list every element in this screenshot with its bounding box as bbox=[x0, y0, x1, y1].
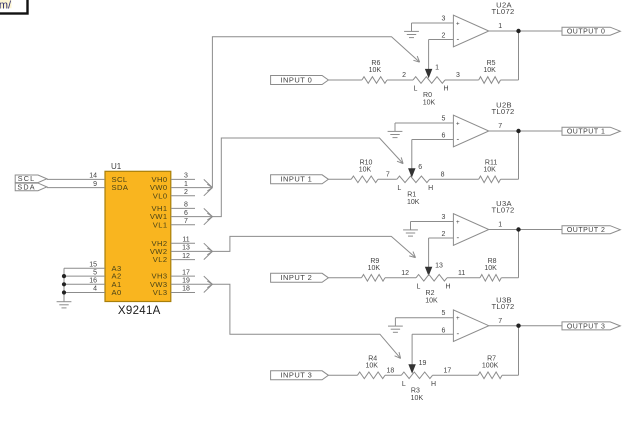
wire feedback up bbox=[502, 374, 518, 376]
potentiometer R3 wiper arrow pin 19 bbox=[409, 365, 415, 373]
bus tap arrow group3 bbox=[204, 276, 213, 284]
svg-text:11: 11 bbox=[182, 236, 189, 243]
resistor R10 10K bbox=[351, 176, 378, 183]
svg-text:R4: R4 bbox=[368, 355, 377, 362]
svg-text:6: 6 bbox=[418, 164, 422, 171]
wire R3 to R7 bbox=[433, 374, 479, 376]
svg-text:2: 2 bbox=[442, 33, 446, 40]
svg-text:TL072: TL072 bbox=[491, 7, 514, 16]
wire R10 to R1 bbox=[378, 178, 397, 180]
wire output pin 7 bbox=[489, 130, 562, 132]
wire R6 to R0 bbox=[387, 79, 413, 81]
junction bbox=[516, 227, 520, 231]
svg-text:R2: R2 bbox=[426, 290, 435, 297]
ground (U3B +in) bbox=[394, 318, 396, 326]
ground (U3A +in) bbox=[410, 222, 412, 230]
wire +in pin 3 bbox=[411, 221, 454, 223]
svg-text:1: 1 bbox=[435, 65, 439, 72]
svg-text:VL1: VL1 bbox=[153, 220, 168, 229]
wire feedback up bbox=[501, 79, 519, 81]
IC pin 3 VH0 stub bbox=[171, 178, 195, 180]
svg-text:H: H bbox=[445, 283, 450, 290]
svg-text:A0: A0 bbox=[112, 288, 122, 297]
wire INPUT 2 to R9 bbox=[328, 277, 361, 279]
svg-text:H: H bbox=[431, 381, 436, 388]
svg-text:OUTPUT 0: OUTPUT 0 bbox=[567, 29, 606, 36]
svg-text:18: 18 bbox=[182, 286, 190, 293]
svg-text:3: 3 bbox=[442, 15, 446, 22]
op-amp U3A TL072 bbox=[453, 214, 488, 246]
IC pin 19 VW3 stub bbox=[171, 283, 195, 285]
svg-text:6: 6 bbox=[442, 133, 446, 140]
svg-text:R7: R7 bbox=[487, 355, 496, 362]
svg-text:TL072: TL072 bbox=[491, 302, 514, 311]
net flag OUTPUT 1 bbox=[562, 127, 620, 135]
svg-text:1: 1 bbox=[184, 181, 188, 188]
svg-text:H: H bbox=[428, 185, 433, 192]
svg-text:2: 2 bbox=[184, 189, 188, 196]
junction bbox=[62, 282, 66, 286]
op-amp U3B TL072 bbox=[453, 310, 488, 342]
bus tap arrow group1 bbox=[204, 208, 213, 216]
svg-text:7: 7 bbox=[498, 318, 502, 325]
wire R0 to R5 bbox=[445, 79, 479, 81]
IC pin 6 VW1 stub bbox=[171, 216, 195, 218]
svg-text:INPUT 2: INPUT 2 bbox=[281, 273, 313, 282]
junction bbox=[62, 274, 66, 278]
wire output pin 7 bbox=[489, 325, 562, 327]
IC pin 7 VL1 stub bbox=[171, 224, 195, 226]
resistor R11 10K bbox=[479, 176, 501, 183]
IC pin 17 VH3 stub bbox=[171, 275, 195, 277]
wire R2 to R8 bbox=[447, 277, 480, 279]
potentiometer R0 10K body bbox=[413, 77, 445, 84]
svg-text:VL0: VL0 bbox=[153, 191, 168, 200]
wire output pin 1 bbox=[489, 30, 562, 32]
svg-text:L: L bbox=[417, 283, 421, 290]
junction bbox=[62, 290, 66, 294]
svg-text:5: 5 bbox=[93, 269, 97, 276]
svg-text:5: 5 bbox=[442, 115, 446, 122]
svg-text:TL072: TL072 bbox=[491, 107, 514, 116]
svg-text:10K: 10K bbox=[425, 297, 438, 304]
junction bbox=[516, 29, 520, 33]
svg-text:2: 2 bbox=[402, 72, 406, 79]
svg-text:10K: 10K bbox=[368, 265, 381, 272]
svg-text:11: 11 bbox=[458, 270, 465, 277]
wire INPUT 0 to R6 bbox=[328, 79, 362, 81]
ground (U2B +in) bbox=[394, 123, 396, 131]
wire R9 to R2 bbox=[385, 277, 416, 279]
potentiometer R1 wiper arrow pin 6 bbox=[409, 169, 415, 177]
svg-text:R3: R3 bbox=[411, 387, 420, 394]
IC pin 14 SCL stub bbox=[47, 178, 105, 180]
svg-text:+: + bbox=[456, 219, 460, 226]
svg-text:OUTPUT 1: OUTPUT 1 bbox=[567, 129, 606, 136]
svg-text:+: + bbox=[456, 120, 460, 127]
potentiometer R2 10K body bbox=[416, 275, 447, 282]
resistor R8 10K bbox=[480, 275, 501, 282]
wire bus group2 bbox=[212, 236, 415, 257]
svg-text:19: 19 bbox=[182, 278, 190, 285]
svg-text:-: - bbox=[456, 233, 459, 242]
svg-text:18: 18 bbox=[387, 368, 395, 375]
svg-text:R5: R5 bbox=[487, 60, 496, 67]
svg-text:1: 1 bbox=[498, 23, 502, 30]
svg-text:INPUT 3: INPUT 3 bbox=[281, 371, 313, 380]
svg-text:3: 3 bbox=[442, 214, 446, 221]
wire bus group3 bbox=[212, 284, 400, 358]
svg-text:12: 12 bbox=[182, 253, 190, 260]
svg-text:2: 2 bbox=[442, 231, 446, 238]
svg-text:+: + bbox=[456, 315, 460, 322]
net flag INPUT 0 bbox=[271, 76, 329, 85]
svg-text:L: L bbox=[414, 86, 418, 93]
potentiometer R0 wiper arrow pin 1 bbox=[426, 69, 432, 77]
IC pin 15 A3 stub bbox=[64, 267, 105, 269]
svg-text:10K: 10K bbox=[423, 100, 436, 107]
resistor R7 100K bbox=[478, 372, 502, 379]
wire output pin 1 bbox=[489, 229, 562, 231]
wire -in pin 6 bbox=[412, 333, 453, 335]
potentiometer R1 10K body bbox=[397, 176, 430, 183]
net flag SDA bbox=[15, 183, 47, 191]
wire bus group0 bbox=[212, 37, 419, 188]
svg-text:VL2: VL2 bbox=[153, 255, 168, 264]
svg-text:8: 8 bbox=[441, 172, 445, 179]
IC pin 2 VL0 stub bbox=[171, 195, 195, 197]
ground (U2A +in) bbox=[411, 23, 413, 31]
svg-text:10K: 10K bbox=[411, 395, 424, 402]
page fragment box (top-left) bbox=[0, 0, 28, 14]
svg-text:-: - bbox=[456, 35, 459, 44]
svg-text:19: 19 bbox=[419, 360, 427, 367]
svg-text:17: 17 bbox=[444, 368, 452, 375]
svg-text:OUTPUT 3: OUTPUT 3 bbox=[567, 323, 606, 330]
svg-text:10K: 10K bbox=[359, 167, 372, 174]
svg-text:+: + bbox=[456, 20, 460, 27]
resistor R5 10K bbox=[479, 77, 501, 84]
svg-text:-: - bbox=[456, 329, 459, 338]
svg-text:6: 6 bbox=[184, 210, 188, 217]
svg-text:15: 15 bbox=[89, 262, 97, 269]
wire INPUT 1 to R10 bbox=[328, 178, 351, 180]
svg-text:10K: 10K bbox=[369, 67, 382, 74]
svg-text:1: 1 bbox=[498, 222, 502, 229]
svg-text:7: 7 bbox=[184, 218, 188, 225]
op-amp U2A TL072 bbox=[453, 15, 488, 47]
IC U1 X9241A body bbox=[105, 171, 171, 301]
svg-text:10K: 10K bbox=[407, 199, 420, 206]
wire +in pin 5 bbox=[395, 122, 453, 124]
IC pin 4 A0 stub bbox=[64, 292, 105, 294]
resistor R4 10K bbox=[357, 372, 385, 379]
svg-text:10K: 10K bbox=[483, 167, 496, 174]
svg-text:13: 13 bbox=[182, 245, 190, 252]
svg-text:VL3: VL3 bbox=[153, 288, 168, 297]
svg-text:SDA: SDA bbox=[17, 182, 35, 191]
svg-text:10K: 10K bbox=[483, 67, 496, 74]
svg-text:R11: R11 bbox=[485, 159, 497, 166]
net flag OUTPUT 3 bbox=[562, 322, 620, 330]
IC pin 11 VH2 stub bbox=[171, 242, 195, 244]
net flag INPUT 1 bbox=[271, 175, 329, 184]
svg-text:R10: R10 bbox=[360, 159, 373, 166]
bus tap arrow group2 bbox=[204, 243, 213, 251]
svg-text:U1: U1 bbox=[111, 162, 122, 171]
svg-text:8: 8 bbox=[184, 202, 188, 209]
svg-text:5: 5 bbox=[442, 310, 446, 317]
IC pin 1 VW0 stub bbox=[171, 187, 195, 189]
svg-text:L: L bbox=[397, 185, 401, 192]
svg-text:6: 6 bbox=[442, 327, 446, 334]
wire A-pins common bbox=[63, 268, 65, 301]
svg-text:7: 7 bbox=[498, 123, 502, 130]
IC pin 12 VL2 stub bbox=[171, 259, 195, 261]
net flag INPUT 3 bbox=[271, 371, 329, 380]
wire R1 to R11 bbox=[430, 178, 479, 180]
wire -in pin 6 bbox=[412, 139, 454, 141]
svg-text:7: 7 bbox=[386, 172, 390, 179]
svg-text:4: 4 bbox=[93, 286, 97, 293]
wire bus group1 bbox=[212, 138, 403, 217]
svg-text:R9: R9 bbox=[370, 258, 379, 265]
svg-text:10K: 10K bbox=[484, 265, 497, 272]
op-amp U2B TL072 bbox=[453, 115, 488, 147]
resistor R9 10K bbox=[362, 275, 386, 282]
svg-text:R1: R1 bbox=[407, 191, 416, 198]
wire -in pin 2 bbox=[429, 39, 454, 41]
wire +in pin 3 bbox=[412, 22, 454, 24]
svg-text:10K: 10K bbox=[365, 363, 378, 370]
IC pin 13 VW2 stub bbox=[171, 250, 195, 252]
wire -in pin 2 bbox=[429, 237, 454, 239]
svg-text:14: 14 bbox=[89, 173, 97, 180]
potentiometer R3 10K body bbox=[401, 372, 432, 379]
svg-text:H: H bbox=[443, 86, 448, 93]
svg-text:R8: R8 bbox=[488, 258, 497, 265]
net flag INPUT 2 bbox=[271, 273, 329, 282]
IC pin 8 VH1 stub bbox=[171, 207, 195, 209]
net flag SCL bbox=[15, 175, 47, 183]
svg-text:X9241A: X9241A bbox=[118, 305, 161, 317]
svg-text:17: 17 bbox=[182, 269, 190, 276]
svg-text:INPUT 0: INPUT 0 bbox=[281, 75, 313, 84]
wire +in pin 5 bbox=[395, 317, 453, 319]
svg-text:SDA: SDA bbox=[112, 183, 129, 192]
potentiometer R2 wiper arrow pin 13 bbox=[426, 267, 432, 275]
svg-text:INPUT 1: INPUT 1 bbox=[281, 175, 313, 184]
IC pin 16 A1 stub bbox=[64, 283, 105, 285]
ground (address pins) bbox=[57, 301, 72, 303]
svg-text:OUTPUT 2: OUTPUT 2 bbox=[567, 227, 606, 234]
bus tap arrow group0 bbox=[204, 179, 213, 187]
IC pin 5 A2 stub bbox=[64, 275, 105, 277]
svg-text:12: 12 bbox=[401, 270, 409, 277]
svg-text:13: 13 bbox=[435, 262, 443, 269]
IC pin 9 SDA stub bbox=[47, 187, 105, 189]
IC pin 18 VL3 stub bbox=[171, 292, 195, 294]
junction bbox=[516, 129, 520, 133]
svg-text:R0: R0 bbox=[423, 92, 432, 99]
svg-text:m/: m/ bbox=[0, 0, 12, 11]
net flag OUTPUT 0 bbox=[562, 27, 620, 35]
svg-text:-: - bbox=[456, 135, 459, 144]
resistor R6 10K bbox=[362, 77, 387, 84]
net flag OUTPUT 2 bbox=[562, 226, 620, 234]
svg-text:R6: R6 bbox=[371, 60, 380, 67]
svg-text:L: L bbox=[402, 381, 406, 388]
wire R4 to R3 bbox=[385, 374, 401, 376]
svg-text:9: 9 bbox=[93, 181, 97, 188]
svg-text:3: 3 bbox=[184, 173, 188, 180]
svg-text:100K: 100K bbox=[482, 363, 499, 370]
svg-text:3: 3 bbox=[456, 72, 460, 79]
junction bbox=[516, 324, 520, 328]
svg-text:TL072: TL072 bbox=[491, 206, 514, 215]
wire feedback up bbox=[501, 178, 519, 180]
svg-text:16: 16 bbox=[89, 278, 97, 285]
wire INPUT 3 to R4 bbox=[328, 374, 357, 376]
wire feedback up bbox=[501, 277, 518, 279]
